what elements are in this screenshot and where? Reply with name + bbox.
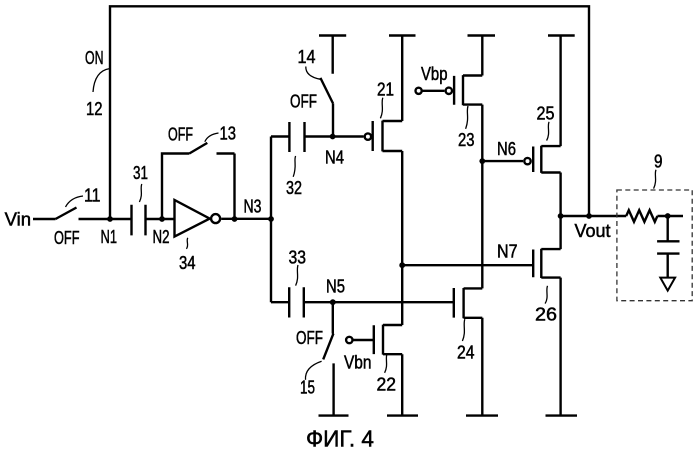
svg-text:25: 25 <box>537 104 555 124</box>
svg-text:34: 34 <box>179 253 196 273</box>
svg-text:24: 24 <box>457 343 475 363</box>
svg-text:Vbp: Vbp <box>421 64 448 84</box>
svg-text:14: 14 <box>298 47 316 67</box>
svg-text:Vin: Vin <box>5 210 31 230</box>
svg-text:N2: N2 <box>153 227 170 247</box>
svg-text:11: 11 <box>84 186 101 206</box>
svg-text:12: 12 <box>86 99 103 119</box>
svg-text:21: 21 <box>377 80 394 100</box>
svg-text:Vbn: Vbn <box>344 353 372 373</box>
svg-text:26: 26 <box>535 305 557 325</box>
svg-text:OFF: OFF <box>290 92 317 112</box>
svg-text:OFF: OFF <box>54 228 80 248</box>
svg-text:OFF: OFF <box>296 328 323 348</box>
svg-text:22: 22 <box>377 375 397 395</box>
svg-text:N5: N5 <box>326 277 345 297</box>
svg-text:ФИГ. 4: ФИГ. 4 <box>306 425 374 450</box>
svg-text:31: 31 <box>133 163 148 183</box>
svg-text:33: 33 <box>289 248 307 268</box>
svg-text:N1: N1 <box>101 227 118 247</box>
svg-text:N7: N7 <box>497 242 518 262</box>
svg-text:ON: ON <box>85 48 104 68</box>
svg-text:Vout: Vout <box>575 221 611 241</box>
svg-text:N4: N4 <box>325 148 344 168</box>
svg-text:23: 23 <box>458 130 475 150</box>
svg-text:32: 32 <box>286 178 302 198</box>
svg-text:9: 9 <box>654 152 663 172</box>
svg-text:N6: N6 <box>497 139 516 159</box>
svg-text:15: 15 <box>300 378 315 398</box>
svg-text:N3: N3 <box>244 197 262 217</box>
svg-text:OFF: OFF <box>168 125 193 145</box>
svg-text:13: 13 <box>220 124 237 144</box>
